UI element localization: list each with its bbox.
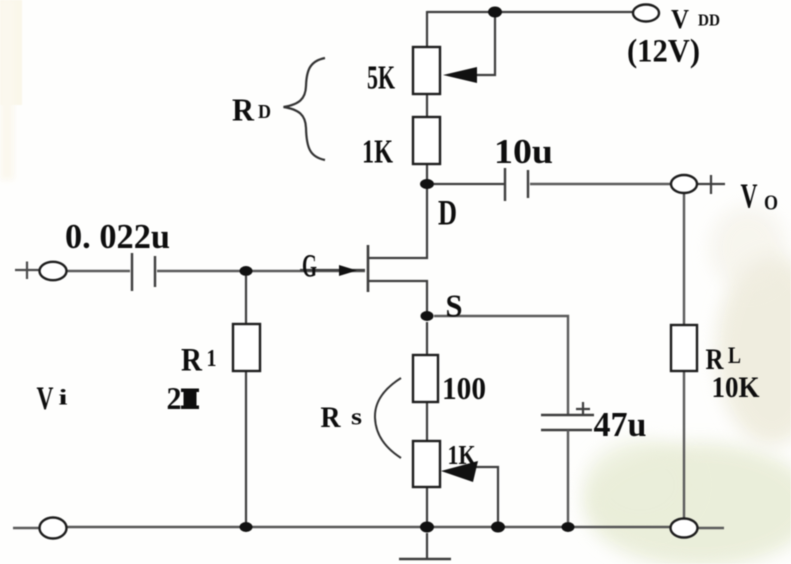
svg-text:G: G xyxy=(302,249,317,285)
svg-text:DD: DD xyxy=(698,11,720,30)
svg-text:10K: 10K xyxy=(712,371,761,404)
svg-text:i: i xyxy=(59,385,68,410)
svg-text:(12V): (12V) xyxy=(627,34,700,70)
svg-text:D: D xyxy=(438,193,457,233)
svg-text:D: D xyxy=(258,101,271,123)
svg-text:10u: 10u xyxy=(494,132,553,171)
svg-text:0. 022u: 0. 022u xyxy=(65,217,170,256)
svg-text:47u: 47u xyxy=(594,405,647,444)
svg-text:100: 100 xyxy=(442,370,486,406)
svg-text:5K: 5K xyxy=(367,60,395,97)
svg-text:s: s xyxy=(351,405,362,431)
svg-text:V: V xyxy=(741,177,758,216)
svg-text:1: 1 xyxy=(207,346,217,372)
svg-text:O: O xyxy=(764,191,778,215)
svg-text:R: R xyxy=(181,343,203,379)
svg-text:L: L xyxy=(728,343,741,368)
svg-text:R: R xyxy=(321,401,341,434)
svg-text:R: R xyxy=(232,92,255,128)
svg-text:1K: 1K xyxy=(448,440,476,470)
svg-text:V: V xyxy=(37,381,54,417)
svg-text:S: S xyxy=(446,288,463,324)
svg-text:1K: 1K xyxy=(362,134,393,171)
svg-text:2: 2 xyxy=(167,380,182,416)
svg-text:V: V xyxy=(671,4,689,34)
